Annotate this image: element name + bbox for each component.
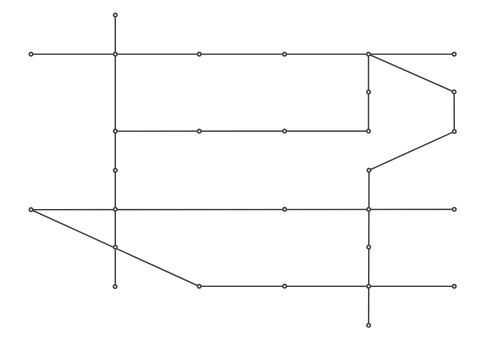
node F4 V2 x H3: [367, 208, 371, 212]
node G2 on V2 lower: [367, 245, 371, 249]
node F5 right end of H3: [453, 208, 457, 212]
wire H4 bottom horizontal: [199, 285, 454, 287]
wire right column short vertical: [453, 92, 455, 132]
wire D2 diagonal right-mid: [369, 132, 454, 171]
wire V2 upper right-mid column: [368, 54, 370, 131]
node H4 right end of H4: [453, 285, 457, 289]
node B2 V1 x H1: [114, 52, 118, 56]
node H3 V2 x H4: [367, 285, 371, 289]
wire H2 second horizontal: [115, 130, 368, 132]
wire V1 vertical left column: [114, 15, 116, 287]
node I2 bottom of V2: [367, 324, 371, 328]
node D4 right end of H2: [367, 129, 371, 133]
wire H1 top horizontal: [31, 53, 454, 55]
node E2 top of V2 lower: [367, 169, 371, 173]
node D3 on H2: [283, 129, 287, 133]
node D1 left end of H2 on V1: [114, 129, 118, 133]
node H2 on H4: [283, 284, 287, 288]
node D2 on H2: [198, 129, 202, 133]
node D5 bottom of right column: [453, 130, 457, 134]
node F3 on H3: [283, 208, 287, 212]
wire D3 diagonal bottom-left: [31, 210, 199, 287]
node C2 top of right column: [452, 90, 456, 94]
node C1 on V2 upper: [367, 90, 371, 94]
node F1 left end of H3: [29, 208, 33, 212]
node B3 on H1: [198, 52, 202, 56]
wire D1 diagonal top-right: [369, 54, 455, 92]
node F2 V1 x H3: [114, 208, 118, 212]
node G1 V1 x D3: [114, 245, 118, 249]
node B4 on H1: [283, 52, 287, 56]
node B6 right end of H1: [452, 52, 456, 56]
node B5 H1 junction with D1 and V2: [367, 52, 371, 56]
wire H3 third horizontal: [31, 208, 454, 210]
node B1 left end of H1: [29, 52, 33, 56]
node E1 on V1: [114, 169, 118, 173]
node H1 left end of H4: [197, 285, 201, 289]
wire V2 lower right-mid column: [368, 170, 370, 325]
node A1 top of V1: [114, 13, 118, 17]
node I1 bottom of V1: [113, 285, 117, 289]
